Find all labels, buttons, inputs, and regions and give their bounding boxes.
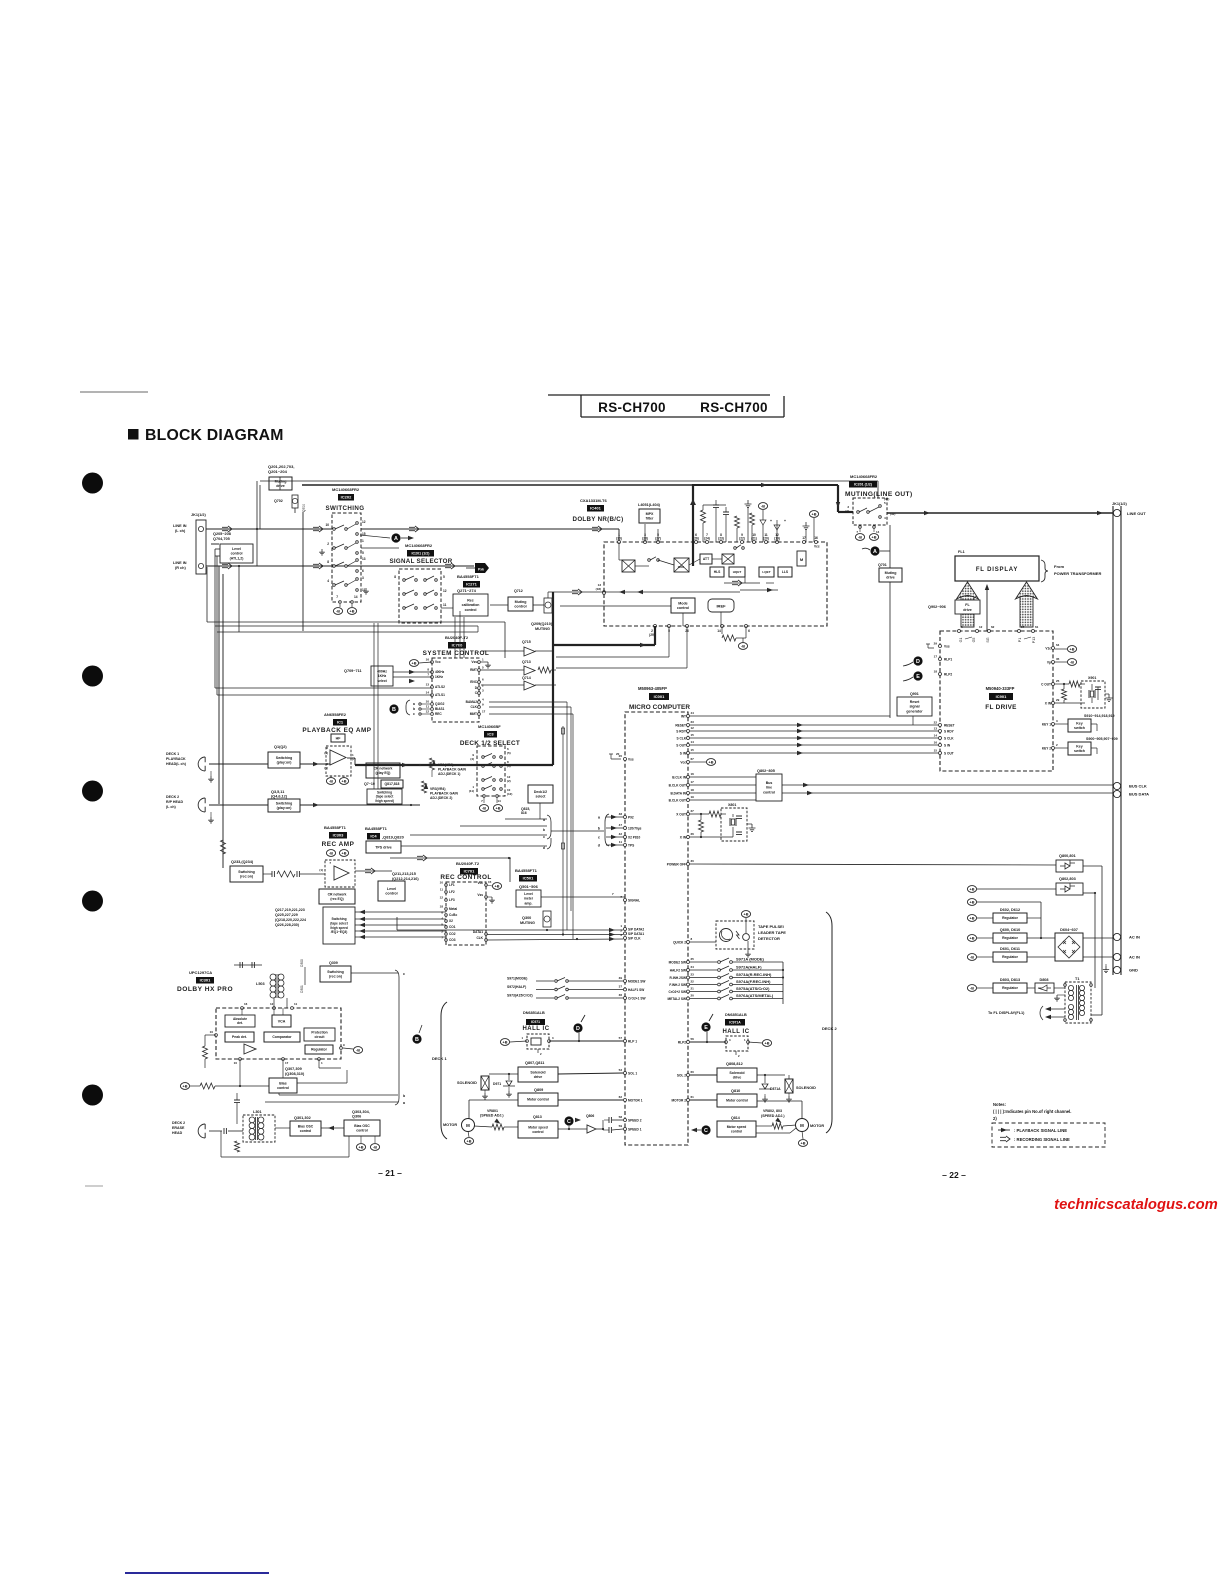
svg-text:23: 23 [691,973,695,977]
svg-text:Q700: Q700 [302,504,306,512]
svg-text:-B: -B [336,610,340,614]
svg-text:400Hz: 400Hz [435,670,445,674]
wire [297,1082,347,1084]
wire [764,1094,766,1096]
wire [977,888,1056,890]
amplifier [244,1044,256,1054]
pin [624,1040,627,1043]
power +B [339,850,348,857]
wire [1048,1016,1065,1018]
svg-text:MC140668FR2: MC140668FR2 [405,543,433,548]
pin [493,779,496,782]
pin [742,547,745,550]
svg-text:S975A(ATS/CrO2): S975A(ATS/CrO2) [736,986,770,991]
wire [596,644,655,646]
playback signal arrow [328,1126,334,1130]
svg-text:(tape select: (tape select [330,921,348,925]
wire [360,1136,362,1143]
wire [536,997,554,999]
svg-text:67: 67 [691,757,695,761]
pin [687,799,690,802]
svg-text:C: C [704,1128,708,1134]
svg-text:24: 24 [691,965,695,969]
pin [482,779,485,782]
component box [1056,860,1083,872]
svg-text:-B: -B [1070,661,1074,665]
pin [526,1040,529,1043]
svg-text:ATLS2: ATLS2 [435,685,445,689]
wire [1055,661,1067,663]
wire [721,626,723,634]
pin [340,1047,343,1050]
pin [493,765,496,768]
svg-text:IC3: IC3 [487,732,494,737]
node A [870,546,879,555]
junction [700,836,702,838]
svg-text:HLS: HLS [714,570,721,574]
wire [354,870,356,872]
svg-text:Muting: Muting [275,480,287,484]
pin [333,584,336,587]
wire [393,676,432,678]
wire [596,1128,603,1130]
wire [210,771,212,776]
wire [887,512,1113,514]
svg-text:LINE IN: LINE IN [173,524,187,528]
playback signal arrow [619,590,625,594]
svg-text:S IN: S IN [944,743,951,747]
node C [701,1125,710,1134]
svg-text:16: 16 [814,536,818,540]
block outline [332,513,361,602]
playback signal arrow [609,937,615,941]
wire [535,650,553,652]
wire [504,1126,518,1128]
block outline [625,712,688,1145]
pin [445,920,448,923]
svg-text:Vcc: Vcc [477,881,483,885]
transformer [249,1117,255,1123]
svg-text:V1c: V1c [1045,646,1051,650]
box Muting drive [879,568,902,582]
svg-text:Regulator: Regulator [1002,936,1019,940]
wire [1120,506,1122,975]
svg-text:Motor control: Motor control [527,1098,549,1102]
svg-text:Q807,Q811: Q807,Q811 [525,1061,544,1065]
svg-text:61: 61 [691,1095,695,1099]
wire [1063,700,1065,703]
playback signal arrow [611,826,617,830]
resistor [735,516,740,528]
svg-text:(24): (24) [704,537,710,541]
pin [1018,630,1021,633]
svg-text:(ATL1,2): (ATL1,2) [230,556,244,560]
component box [481,1076,489,1090]
pin [939,752,942,755]
svg-text:Q7~10: Q7~10 [364,782,375,786]
wire [348,1136,350,1157]
svg-text:14: 14 [934,734,938,738]
svg-text:UPC1297CA: UPC1297CA [189,970,212,975]
box Level control (ATL1,2) [220,544,253,563]
svg-text:HALF1 SW: HALF1 SW [628,988,644,992]
svg-text:DOLBY HX PRO: DOLBY HX PRO [177,986,233,993]
resistor [750,513,755,525]
wire [241,1008,243,1015]
svg-text:37: 37 [619,985,623,989]
svg-text:ATT: ATT [703,557,710,561]
node C [564,1116,573,1125]
svg-text:10: 10 [210,1030,214,1034]
wire [562,726,564,935]
wire [347,543,356,548]
svg-text:ADJ.(DECK 1): ADJ.(DECK 1) [438,772,460,776]
wire [396,917,398,930]
pin [282,1058,285,1061]
resistor [722,635,736,641]
svg-text:LQET: LQET [762,570,770,574]
svg-text:C OUT: C OUT [1041,682,1051,686]
wire [722,554,734,564]
pin [718,983,721,986]
svg-text:18: 18 [691,788,695,792]
svg-text:14: 14 [497,799,501,803]
svg-text:Vss: Vss [944,644,950,648]
pin [686,625,689,628]
svg-text:PLAYBACK: PLAYBACK [166,757,186,761]
svg-text:B: B [415,1037,419,1043]
wire [547,592,549,598]
svg-text:Q309: Q309 [329,961,338,965]
power &#45;B [967,985,976,992]
wire [690,961,717,963]
svg-text:Q802,803: Q802,803 [1059,877,1076,881]
wire [510,1041,527,1042]
svg-text:RMT: RMT [470,668,477,672]
wire [813,518,815,542]
pin [478,681,481,684]
wire [977,956,993,958]
svg-text:X2 P810: X2 P810 [628,835,640,839]
svg-text:+B: +B [342,780,347,784]
svg-text:19: 19 [691,795,695,799]
pin [879,516,882,519]
wire [1055,683,1069,685]
ground [745,951,751,957]
resistor [699,820,704,832]
svg-text:56: 56 [691,1037,695,1041]
wire [650,557,656,560]
wire [347,580,356,585]
pin [939,724,942,727]
wire [551,830,604,832]
pin [867,511,870,514]
ground [803,522,810,529]
svg-text:CO1: CO1 [449,925,456,929]
svg-text:(play:on): (play:on) [277,806,292,810]
svg-text:61: 61 [1035,625,1039,629]
junction [568,1128,570,1130]
wire [260,480,878,482]
svg-text:DOLBY NR(B/C): DOLBY NR(B/C) [573,516,624,523]
wire [355,911,446,913]
svg-text:PLAYBACK GAIN: PLAYBACK GAIN [430,792,458,796]
wire [355,924,446,926]
svg-text:+: + [770,519,772,523]
svg-text:12: 12 [979,625,983,629]
amplifier [334,866,349,880]
power +B [762,1040,771,1047]
IC designator IC701 [460,868,478,875]
pin [718,997,721,1000]
svg-text:-B: -B [482,807,486,811]
svg-text:RLP 1: RLP 1 [628,1039,637,1043]
svg-text:Q713: Q713 [522,660,531,664]
playback signal arrow [609,932,615,936]
box 400Hz 1KHz select [371,666,393,686]
svg-text:10: 10 [440,881,444,885]
pin [273,1007,276,1010]
wire [690,941,716,943]
wire [568,980,623,982]
wire [674,558,689,572]
pin [687,990,690,993]
wire [686,626,688,668]
svg-text:From: From [1054,564,1064,569]
wire [487,896,492,898]
svg-text:ADJ.(DECK 2): ADJ.(DECK 2) [430,796,452,800]
svg-text:Metal: Metal [449,907,457,911]
pin [1052,683,1055,686]
svg-text:LINE IN: LINE IN [173,561,187,565]
block outline [216,1008,341,1059]
svg-text:IC700: IC700 [452,643,463,648]
wire [204,807,206,812]
box TPS drive [366,841,401,853]
pin [624,928,627,931]
wire [690,991,717,993]
wire [785,1079,793,1093]
svg-text:Q600, D610: Q600, D610 [1000,928,1020,932]
pin [478,713,481,716]
wire [690,799,756,801]
component box [955,556,1039,581]
svg-text:CO3: CO3 [449,938,456,942]
wire [351,972,398,974]
wire [725,515,727,542]
svg-text:drive: drive [963,608,972,612]
junction [546,929,548,931]
wire [1106,966,1113,970]
svg-text:(Q218,220,222,224: (Q218,220,222,224 [275,918,306,922]
svg-text:22: 22 [691,980,695,984]
pin [734,547,737,550]
wire [204,757,206,762]
pin [478,687,481,690]
playback signal arrow [575,1118,581,1122]
wire [300,763,330,765]
wire [837,485,839,512]
svg-text:B.CLK OUT: B.CLK OUT [669,783,686,787]
wire [204,798,206,803]
box Q817,818 [381,780,403,788]
svg-text:(play:on): (play:on) [277,760,292,764]
power +B [339,778,348,785]
wire [220,1131,222,1157]
box Motor speed control [518,1121,558,1138]
pin [1090,1019,1093,1022]
svg-text:S/P DATA2: S/P DATA2 [628,927,644,931]
svg-text:57: 57 [619,1036,623,1040]
junction [782,969,784,971]
svg-text:IC971A: IC971A [729,1020,741,1024]
component box [543,911,551,927]
pin [356,552,359,555]
node B [389,704,398,713]
svg-text:VR801: VR801 [487,1109,498,1113]
playback signal arrow [761,483,767,487]
wire [690,1099,717,1101]
pin [859,526,862,529]
pin [445,933,448,936]
crystal [1089,690,1095,698]
wire [533,604,544,606]
box Regulator [305,1045,333,1054]
svg-text:+B: +B [765,1042,770,1046]
power &#45;B [326,778,335,785]
svg-text:6: 6 [748,629,750,633]
wire [374,1136,376,1143]
junction [1040,937,1042,939]
wire [347,524,356,529]
svg-text:c: c [413,712,415,716]
wire [736,637,746,639]
wire [361,528,619,530]
wire [468,1131,469,1137]
wire [355,870,392,872]
wire [216,556,218,695]
pin [198,526,203,531]
wire [1091,684,1093,690]
wire [782,962,784,1004]
pin [730,961,733,964]
wire [566,702,568,930]
svg-text:-B: -B [356,1049,360,1053]
svg-text:Level: Level [387,887,396,891]
pin [1052,702,1055,705]
svg-text:Q808,812: Q808,812 [726,1062,743,1066]
playback signal arrow [1045,1007,1051,1011]
power &#45;B [333,608,342,615]
recording signal arrow [445,563,455,569]
wire [757,1100,802,1102]
svg-text:-B: -B [373,1146,377,1150]
playback signal arrow [1001,1128,1007,1132]
wire [481,650,524,652]
pin [644,541,647,544]
svg-text:ERASE: ERASE [172,1126,185,1130]
svg-text:DN6851ALB: DN6851ALB [725,1013,747,1017]
wire [912,716,914,725]
ground [363,588,369,594]
junction [465,764,467,766]
wire [354,758,356,765]
svg-text:(23): (23) [718,537,724,541]
playback signal arrow [797,751,803,755]
svg-text:Q201~204: Q201~204 [268,469,288,474]
svg-text:Switching: Switching [276,802,293,806]
svg-text:Q817,818: Q817,818 [385,782,400,786]
ground [489,897,495,903]
resistor [1069,681,1080,687]
svg-text:10: 10 [426,700,430,704]
wire [1083,865,1102,867]
capacitor [297,871,299,877]
svg-text:+B: +B [1070,648,1075,652]
wire [1080,683,1085,685]
svg-text:12: 12 [270,1002,274,1006]
wire [568,997,623,999]
wire [426,604,434,608]
power &#45;B [855,534,864,541]
svg-text:12: 12 [440,896,444,900]
wire [489,701,567,703]
svg-text:D: D [916,659,920,665]
pin [687,715,690,718]
pin [624,816,627,819]
svg-text:drive: drive [534,1075,543,1079]
component box [955,600,980,614]
svg-text:IC1: IC1 [337,720,344,725]
pin [318,1058,321,1061]
pin [1064,1019,1067,1022]
svg-text:HALL IC: HALL IC [522,1026,549,1032]
svg-text:Vss: Vss [471,660,477,664]
wire [568,1126,570,1129]
svg-text:TPS drive: TPS drive [375,845,392,849]
svg-text:Muting: Muting [885,571,897,575]
wire [214,549,216,688]
wire [682,613,684,626]
wire [347,561,356,566]
svg-text:Regulator: Regulator [1002,955,1019,959]
svg-text:T1: T1 [1075,977,1079,981]
pin [435,579,438,582]
svg-text:control: control [385,892,397,896]
pin [939,744,942,747]
playback signal arrow [803,783,809,787]
svg-text:calibration: calibration [462,603,480,607]
box Motor control [518,1093,558,1106]
capacitor [609,1127,611,1133]
svg-text:Regulator: Regulator [1002,986,1019,990]
playback signal arrow [640,643,646,647]
box Reset signal generator [897,697,932,716]
pin [415,593,418,596]
IC designator IC303 [329,832,347,839]
block outline [721,808,747,841]
wire [733,977,784,979]
svg-text:CLK: CLK [470,705,477,709]
playback signal arrow [797,736,803,740]
svg-text:120/70µs: 120/70µs [628,826,642,830]
wire [279,1094,398,1096]
block outline [940,631,1053,771]
wire [417,871,446,885]
svg-text:29: 29 [934,642,938,646]
svg-text:signal: signal [909,705,919,709]
svg-text:16: 16 [244,1002,248,1006]
